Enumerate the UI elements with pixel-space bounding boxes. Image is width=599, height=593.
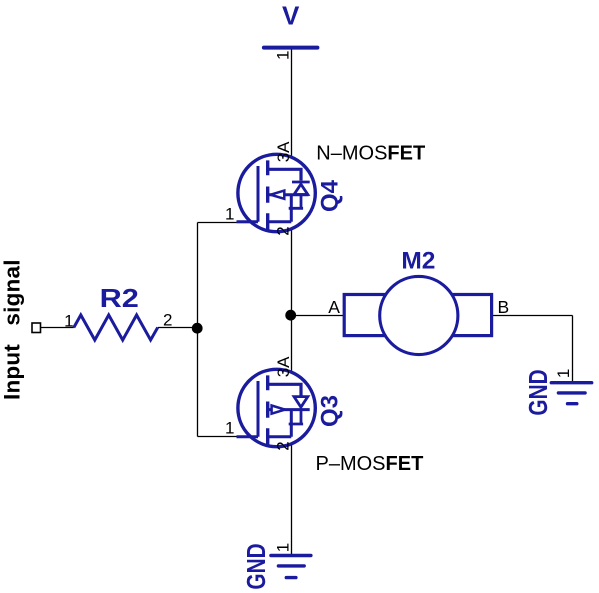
M2 right terminal block [448,295,492,336]
wire Q4 source to Q3 drain (through node) [291,222,293,384]
wire V to Q4 drain [291,50,293,170]
wire input connector to R2 [41,327,74,329]
ground symbol bottom [271,556,311,578]
svg-text:1: 1 [273,543,292,552]
svg-text:P–MOSFET: P–MOSFET [316,453,424,475]
svg-text:N–MOSFET: N–MOSFET [316,143,425,165]
M2 left terminal block [344,295,388,336]
Q4 drain stub [268,169,301,180]
svg-text:1: 1 [225,419,234,438]
svg-text:GND: GND [242,543,271,589]
svg-text:M2: M2 [401,248,435,275]
wire R2 to gate node [158,327,198,329]
power symbol V [264,1,318,48]
Q3 gate lead [237,381,259,437]
svg-text:1: 1 [64,311,73,330]
Q3 channel dashes [266,375,269,445]
ground symbol right [551,383,591,404]
Q4 body circle [238,154,315,231]
Q4 gate lead [237,166,259,222]
motor M2 [344,276,491,354]
svg-text:2: 2 [274,441,293,450]
svg-text:Q3: Q3 [317,395,344,427]
wire to Q3 gate [198,436,251,438]
svg-text:3A: 3A [274,356,293,377]
svg-text:Input signal: Input signal [0,259,24,400]
svg-text:GND: GND [524,369,553,415]
svg-text:V: V [282,1,300,31]
input connector square [32,323,41,333]
svg-text:2: 2 [274,226,293,235]
Q3 source line [268,410,310,437]
wire Q3 source to GND [291,437,293,555]
wire node to motor A [292,315,344,317]
transistor Q4 (N-MOSFET) [237,154,316,231]
wire corner down to GND [572,316,574,383]
Q3 source arrow [272,406,285,414]
svg-text:R2: R2 [100,284,139,313]
svg-text:1: 1 [554,369,573,378]
svg-text:3A: 3A [274,141,293,162]
svg-text:B: B [498,297,510,317]
svg-text:1: 1 [225,205,234,224]
svg-text:2: 2 [163,311,172,330]
node junction at motor branch [285,310,296,321]
Q4 channel dashes [266,160,269,230]
Q3 body circle [238,369,315,446]
svg-text:Q4: Q4 [317,179,344,212]
Q4 source arrow [271,191,285,199]
Q3 body diode [289,397,308,424]
Q4 source line [268,195,309,222]
Q3 drain stub [268,384,301,396]
resistor R2 [74,315,158,340]
svg-text:A: A [328,297,340,317]
Q4 body diode [289,182,310,208]
M2 rotor circle [380,276,458,354]
transistor Q3 (P-MOSFET) [237,369,316,446]
node junction at gate branch [192,323,203,334]
wire to Q4 gate [198,222,251,224]
wire gate branch vertical [197,223,199,437]
wire motor B to corner [492,315,572,317]
svg-text:1: 1 [273,51,292,60]
